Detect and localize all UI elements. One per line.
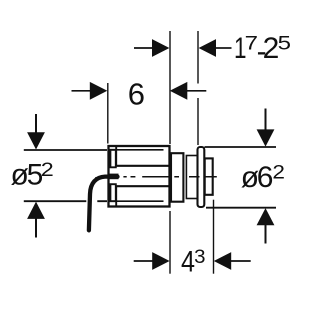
dim 5.2 down arrow (27, 114, 45, 150)
coil body inner thin line upper (109, 149, 164, 151)
coil body inner thick line upper (115, 165, 169, 167)
coil body inner thick line lower (115, 185, 169, 187)
extension line body right edge (shared top dim / dim 6) (169, 31, 171, 144)
cable connector bar (108, 174, 119, 180)
extension line flange left edge (top dim) (197, 31, 199, 145)
coil body inner thin line lower (109, 200, 164, 202)
svg-text:17-25: 17-25 (234, 32, 291, 68)
svg-text:ø52: ø52 (11, 158, 54, 191)
dimension 1.7-2.5 right arrow (199, 39, 232, 57)
dim 6.2 top extension line (205, 146, 277, 148)
cable (89, 177, 118, 231)
dimension 1.7-2.5 left arrow (134, 39, 169, 57)
svg-text:43: 43 (181, 246, 206, 279)
extension line bottom right (pin right edge, dim 4.3) (213, 200, 215, 274)
coil body outline (109, 146, 170, 207)
extension line bottom left (body right edge, dim 4.3) (169, 211, 171, 274)
center line (dash-dot axis) (123, 176, 216, 178)
dimension 6 right arrow (170, 82, 207, 100)
dim 5.2 top extension line (24, 149, 107, 151)
end pin cylinder (205, 158, 213, 194)
cable sheath edge at bend (95, 176, 105, 178)
upper mounting tab (110, 150, 115, 168)
dim 5.2 bottom extension line (24, 200, 107, 202)
washer step (186, 156, 197, 199)
dim 5.2 up arrow (27, 202, 45, 238)
dim 6.2 bottom extension line (206, 207, 276, 209)
svg-text:ø62: ø62 (241, 161, 285, 194)
coil body inner vertical edge (115, 147, 117, 206)
neck cylinder (171, 153, 183, 202)
svg-text:6: 6 (128, 77, 145, 112)
extension line left of dim 6 (body left edge) (107, 83, 109, 144)
dim 6.2 up arrow (257, 208, 275, 243)
dimension 6 left arrow (72, 82, 108, 100)
dimension 4.3 right arrow (214, 252, 251, 270)
dim 6.2 down arrow (257, 109, 275, 147)
dimension 4.3 left arrow (134, 252, 170, 270)
lower mounting tab (110, 184, 115, 201)
flange disc (198, 147, 205, 207)
